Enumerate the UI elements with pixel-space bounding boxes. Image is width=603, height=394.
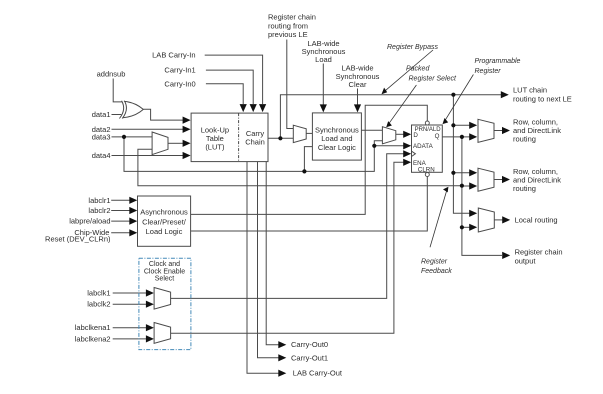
- mux clock enable select: [154, 323, 171, 344]
- svg-text:Clock and: Clock and: [149, 261, 180, 268]
- wire LUT output to mux M1: [268, 137, 293, 139]
- node mux2 top junction: [451, 171, 455, 175]
- asynchronous clear/preset/load logic box: [138, 196, 191, 246]
- arrowheads into LUT: [183, 117, 191, 124]
- svg-text:LAB Carry-Out: LAB Carry-Out: [293, 369, 343, 378]
- wire register Q output: [442, 136, 470, 138]
- svg-text:Register Bypass: Register Bypass: [387, 44, 438, 51]
- arrowheads carry-in (down): [259, 104, 266, 112]
- wire vertical A to output mux 1: [453, 124, 470, 126]
- svg-text:routing from: routing from: [268, 21, 308, 30]
- svg-text:data1: data1: [92, 110, 111, 119]
- wire register bypass: [280, 95, 501, 139]
- svg-text:labclkena1: labclkena1: [75, 323, 111, 332]
- wire register feedback: [462, 137, 502, 256]
- wire labclk1: [113, 292, 147, 294]
- svg-text:Register chain: Register chain: [515, 248, 563, 257]
- node LUT output junction: [278, 136, 282, 140]
- svg-text:Asynchronous: Asynchronous: [140, 208, 188, 217]
- svg-text:Load: Load: [315, 55, 332, 64]
- wire labclkena1: [113, 327, 147, 329]
- wire clock mux to register clock: [171, 154, 404, 299]
- svg-text:labpre/aload: labpre/aload: [69, 217, 110, 226]
- arrowheads outputs right: [501, 91, 509, 98]
- wire labpre/aload: [111, 220, 130, 222]
- wire data1 input: [112, 114, 122, 116]
- wire Carry-In1: [206, 70, 253, 104]
- svg-text:Packed: Packed: [406, 66, 430, 73]
- leader register bypass: [384, 50, 434, 92]
- wire output mux 2 to routing: [494, 179, 502, 181]
- leader programmable register: [445, 75, 474, 122]
- wire carry-out1: [258, 162, 280, 358]
- wire feedback to output mux 3: [462, 226, 470, 228]
- wire labclr1: [111, 199, 130, 201]
- wire branch up into sync box second input: [304, 147, 312, 172]
- svg-text:Select: Select: [155, 276, 175, 283]
- wire mux M1 output to sync logic: [306, 132, 312, 134]
- svg-text:output: output: [515, 257, 537, 266]
- svg-text:Carry-In0: Carry-In0: [164, 79, 195, 88]
- svg-text:routing: routing: [513, 135, 536, 144]
- svg-text:Register chain: Register chain: [268, 13, 316, 22]
- clock and clock enable select dashed box: [139, 258, 191, 349]
- mux output 2 row/column: [478, 168, 494, 191]
- svg-text:Local routing: Local routing: [515, 215, 558, 224]
- mux M1 LUT output / register chain: [293, 125, 306, 142]
- leader register feedback: [430, 190, 447, 248]
- svg-text:D: D: [413, 132, 418, 139]
- synchronous load and clear logic box: [312, 113, 361, 160]
- wire sync logic output to packed mux M2: [361, 129, 382, 131]
- wire LAB Carry-In: [205, 55, 263, 104]
- arrowheads register inputs: [403, 131, 411, 138]
- svg-text:routing to next LE: routing to next LE: [513, 94, 572, 103]
- wire output mux 3 to local routing: [494, 219, 502, 221]
- arrowheads async inputs: [129, 197, 137, 204]
- svg-text:Clear Logic: Clear Logic: [318, 143, 356, 152]
- wire async logic to CLRN: [191, 177, 428, 231]
- svg-text:data3: data3: [92, 132, 111, 141]
- wire register chain routing from previous LE: [287, 40, 294, 129]
- wire clock enable mux to register ENA: [171, 162, 404, 333]
- wire XOR output to LUT input 1: [143, 109, 183, 120]
- svg-text:Register Select: Register Select: [409, 76, 458, 83]
- wire labclk2: [113, 303, 147, 305]
- node Q junction: [460, 135, 464, 139]
- mux output 3 local routing: [478, 208, 494, 232]
- svg-text:routing: routing: [513, 184, 536, 193]
- arrowheads output mux inputs: [469, 122, 477, 129]
- svg-text:LAB Carry-In: LAB Carry-In: [152, 51, 195, 60]
- svg-text:Load Logic: Load Logic: [146, 227, 183, 236]
- svg-text:data4: data4: [92, 151, 111, 160]
- node data3 junction: [122, 135, 126, 139]
- wire packed mux bottom input jog: [374, 141, 382, 146]
- svg-text:Carry-Out1: Carry-Out1: [291, 353, 328, 362]
- node mux3 bottom junction: [460, 225, 464, 229]
- wire feedback to output mux 2: [462, 185, 470, 187]
- wire vertical A to output mux 2: [453, 172, 470, 174]
- wire LAB-wide synchronous clear arrow: [357, 89, 359, 105]
- wire async logic to PRN: [191, 105, 428, 214]
- arrowheads clock mux inputs: [146, 289, 154, 296]
- svg-text:Register: Register: [475, 68, 502, 75]
- svg-text:Chain: Chain: [245, 138, 265, 147]
- svg-text:labclk1: labclk1: [87, 289, 110, 298]
- node sync data junction: [302, 169, 306, 173]
- wire data2 to LUT input 2: [112, 128, 184, 130]
- svg-text:Carry-Out0: Carry-Out0: [291, 340, 328, 349]
- leader packed register select: [388, 85, 416, 125]
- programmable register box U1: [412, 125, 443, 172]
- wire labclkena2: [113, 338, 147, 340]
- wire carry-out0: [266, 162, 279, 345]
- svg-text:Q: Q: [435, 133, 440, 140]
- wire output mux 1 to routing: [494, 130, 502, 132]
- wire data4 to LUT input 4: [112, 155, 184, 157]
- svg-text:LUT chain: LUT chain: [513, 86, 547, 95]
- svg-text:previous LE: previous LE: [268, 30, 308, 39]
- svg-text:(LUT): (LUT): [205, 142, 225, 151]
- wire data3 to mux M0: [112, 136, 153, 138]
- mux output 1 row/column: [478, 119, 494, 142]
- node feedback junction: [460, 184, 464, 188]
- svg-text:Reset (DEV_CLRn): Reset (DEV_CLRn): [45, 235, 111, 244]
- wire addnsub input: [113, 79, 122, 102]
- wire LUT chain vertical A: [453, 95, 470, 214]
- arrowheads carry-outs: [278, 341, 286, 348]
- svg-text:labclr1: labclr1: [88, 196, 110, 205]
- svg-text:labclk2: labclk2: [87, 300, 110, 309]
- svg-text:Feedback: Feedback: [421, 268, 452, 275]
- svg-text:ADATA: ADATA: [413, 143, 434, 150]
- svg-text:Carry-In1: Carry-In1: [164, 66, 195, 75]
- wire LAB carry-out: [247, 162, 279, 374]
- node ADATA junction: [372, 144, 376, 148]
- node bypass junction: [451, 93, 455, 97]
- mux M0 data3/feedback: [152, 132, 168, 155]
- svg-text:addnsub: addnsub: [97, 70, 126, 79]
- wire mux M2 output to register D: [396, 133, 404, 135]
- wire labclr2: [111, 210, 130, 212]
- arrowheads LAB-wide sync load / clear (down): [320, 104, 327, 112]
- look-up table and carry chain box: [191, 113, 268, 162]
- svg-text:Clear: Clear: [349, 80, 367, 89]
- svg-text:labclkena2: labclkena2: [75, 334, 111, 343]
- svg-text:Register: Register: [421, 258, 448, 265]
- wire Carry-In0: [206, 84, 243, 104]
- svg-text:Programmable: Programmable: [475, 58, 521, 65]
- svg-text:Clear/Preset/: Clear/Preset/: [142, 217, 187, 226]
- wire data3 branch to sync load data and ADATA: [124, 137, 404, 172]
- mux M2 packed register select: [382, 127, 395, 144]
- svg-text:Clock Enable: Clock Enable: [144, 268, 185, 275]
- wire feedback to input mux M0: [138, 149, 462, 185]
- wire chip-wide reset: [111, 232, 130, 234]
- wire LAB-wide synchronous load arrow: [322, 64, 324, 105]
- svg-text:labclr2: labclr2: [88, 206, 110, 215]
- xor gate addnsub: [119, 101, 123, 119]
- wire mux M0 output to LUT input 3: [168, 142, 183, 144]
- svg-text:CLRN: CLRN: [418, 166, 435, 173]
- mux clock select: [154, 288, 171, 310]
- node mux1 top junction: [451, 123, 455, 127]
